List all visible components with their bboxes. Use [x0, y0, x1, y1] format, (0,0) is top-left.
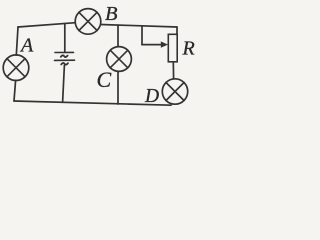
svg-text:B: B — [105, 3, 118, 25]
svg-text:A: A — [19, 35, 34, 57]
svg-text:D: D — [144, 86, 159, 107]
svg-text:R: R — [182, 38, 195, 60]
svg-text:C: C — [97, 67, 112, 92]
